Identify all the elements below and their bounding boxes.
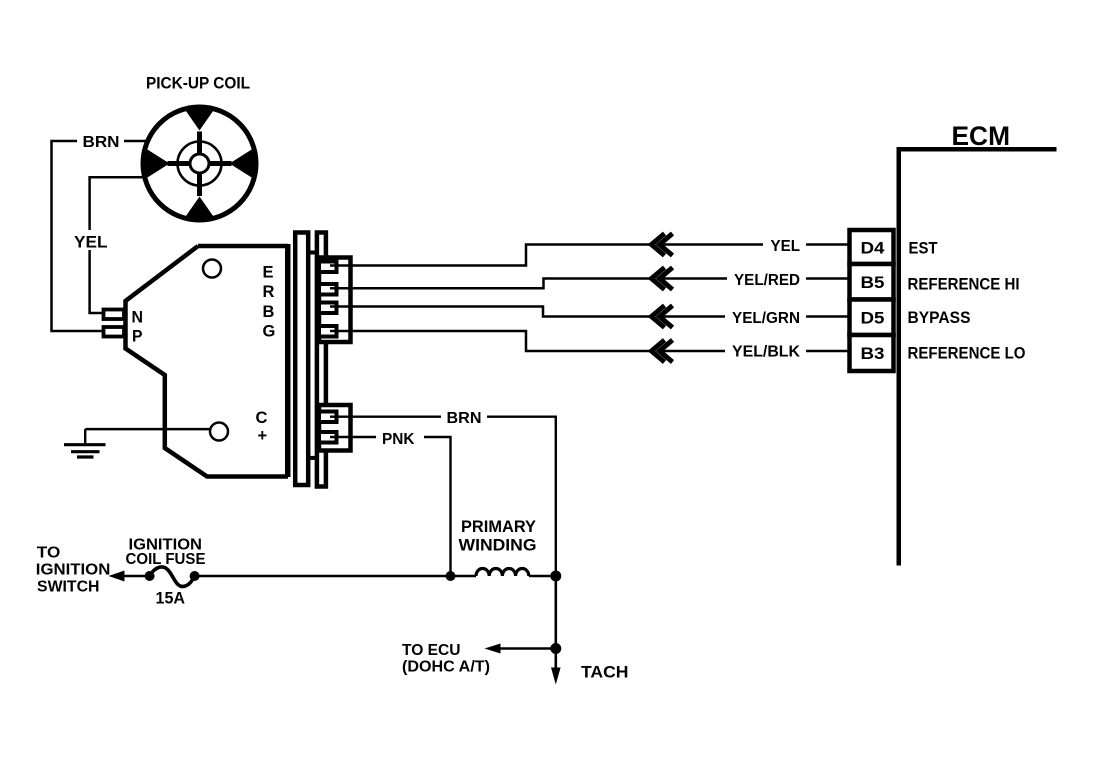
ECM top line — [897, 147, 1057, 152]
arrow to ignition switch — [109, 571, 125, 582]
ECM pin box D5 — [850, 300, 894, 336]
svg-text:WINDING: WINDING — [459, 536, 537, 555]
top block pin tab 4 — [319, 326, 337, 337]
svg-text:TACH: TACH — [581, 663, 629, 682]
chevron wire 4 — [652, 340, 665, 362]
connector plate bar 2 — [317, 233, 326, 487]
pick-up coil inner ring — [178, 142, 222, 186]
svg-text:B5: B5 — [861, 274, 885, 292]
svg-text:TO: TO — [37, 545, 61, 562]
connector plate bar 1 — [295, 233, 308, 486]
wire down to tach — [554, 576, 557, 668]
svg-text:YEL/RED: YEL/RED — [734, 272, 800, 289]
label YEL left — [70, 230, 111, 250]
top connector block — [319, 258, 351, 343]
ground wire — [85, 428, 210, 431]
svg-text:D5: D5 — [861, 310, 885, 328]
wire to ECU — [497, 647, 556, 650]
svg-text:N: N — [132, 309, 144, 327]
svg-text:YEL/BLK: YEL/BLK — [732, 344, 800, 361]
svg-text:YEL/GRN: YEL/GRN — [732, 310, 800, 327]
svg-text:PICK-UP COIL: PICK-UP COIL — [146, 74, 250, 93]
wire YEL from pick-up coil — [90, 177, 143, 313]
wire BRN to coil — [330, 417, 556, 576]
svg-text:IGNITION: IGNITION — [36, 562, 111, 579]
svg-text:BYPASS: BYPASS — [908, 308, 971, 327]
label YEL wire1 — [763, 235, 806, 254]
svg-text:SWITCH: SWITCH — [37, 579, 100, 596]
bottom block pin tab PNK — [319, 432, 337, 443]
main bottom wire — [195, 575, 476, 578]
svg-text:B: B — [263, 303, 275, 321]
module pin P tab — [104, 327, 125, 337]
top block pin tab 3 — [319, 303, 337, 314]
svg-text:REFERENCE LO: REFERENCE LO — [908, 344, 1026, 363]
ECM pin box B5 — [850, 264, 894, 300]
top block pin tab 2 — [319, 284, 337, 295]
svg-text:BRN: BRN — [447, 410, 482, 427]
svg-text:COIL FUSE: COIL FUSE — [126, 551, 206, 568]
svg-text:PNK: PNK — [382, 431, 415, 448]
wire BRN from pick-up coil — [52, 141, 147, 331]
svg-text:YEL: YEL — [74, 233, 108, 252]
module upper hole — [203, 260, 221, 278]
svg-text:EST: EST — [909, 239, 939, 258]
label YEL/RED — [727, 269, 806, 288]
svg-text:R: R — [263, 283, 275, 301]
wire EST to ECM — [330, 245, 652, 266]
pick-up coil center hub — [190, 154, 209, 173]
svg-text:D4: D4 — [861, 240, 886, 258]
svg-text:REFERENCE HI: REFERENCE HI — [908, 275, 1020, 294]
svg-text:ECM: ECM — [952, 121, 1011, 151]
svg-text:YEL: YEL — [771, 238, 801, 255]
ground symbol — [84, 429, 86, 444]
ignition module right edge — [285, 244, 291, 477]
pick-up coil bottom pole triangle — [184, 197, 216, 220]
label BRN bottom — [441, 408, 487, 426]
junction dot PNK — [446, 571, 456, 581]
pick-up coil right pole triangle — [230, 147, 256, 180]
svg-text:G: G — [263, 323, 276, 341]
wire REFERENCE LO to ECM — [330, 331, 652, 351]
svg-text:(DOHC A/T): (DOHC A/T) — [402, 659, 490, 676]
pick-up coil top pole triangle — [184, 108, 216, 131]
ECM left line — [897, 147, 902, 566]
pick-up coil cross vertical — [197, 132, 202, 197]
pick-up coil left pole triangle — [144, 147, 170, 180]
plate bridge bottom — [308, 456, 317, 460]
chevron wire 2 — [652, 268, 665, 290]
wire winding to junction — [529, 575, 556, 578]
svg-text:PRIMARY: PRIMARY — [461, 517, 537, 536]
top block pin tab 1 — [319, 262, 337, 273]
fuse terminal dot right — [190, 571, 200, 581]
primary winding coil — [476, 569, 529, 577]
chevron wire 3 — [652, 306, 665, 328]
bottom connector block — [319, 405, 351, 451]
svg-text:C: C — [256, 409, 268, 427]
ECM pin box B3 — [850, 335, 894, 371]
wire REFERENCE HI to ECM — [330, 279, 652, 289]
wire PNK — [330, 437, 451, 576]
arrow to ECU — [485, 644, 501, 654]
pick-up coil outer circle — [143, 107, 256, 220]
module pin N tab — [104, 310, 125, 320]
svg-text:+: + — [258, 427, 268, 445]
pick-up coil cross horizontal — [168, 161, 232, 166]
svg-text:TO ECU: TO ECU — [402, 642, 461, 659]
svg-text:P: P — [132, 328, 143, 346]
module lower hole — [210, 423, 228, 441]
svg-text:15A: 15A — [156, 589, 186, 608]
label PNK — [376, 428, 424, 447]
arrow tach down — [551, 668, 561, 685]
junction dot BRN/tach — [550, 571, 561, 582]
svg-text:BRN: BRN — [83, 134, 120, 151]
label YEL/BLK — [725, 342, 806, 361]
ignition module outline — [198, 244, 288, 249]
label YEL/GRN — [725, 307, 806, 326]
wire to ignition switch — [122, 575, 150, 577]
wire BYPASS to ECM — [330, 307, 652, 317]
svg-text:E: E — [263, 264, 274, 282]
label BRN top — [77, 132, 124, 150]
fuse terminal dot left — [145, 571, 155, 581]
plate bridge top — [308, 251, 317, 255]
chevron wire 1 — [652, 234, 665, 256]
junction dot to-ecu — [550, 643, 561, 654]
fuse element — [150, 567, 195, 586]
svg-text:B3: B3 — [861, 345, 885, 363]
ECM pin box D4 — [850, 230, 894, 264]
bottom block pin tab BRN — [319, 412, 337, 423]
